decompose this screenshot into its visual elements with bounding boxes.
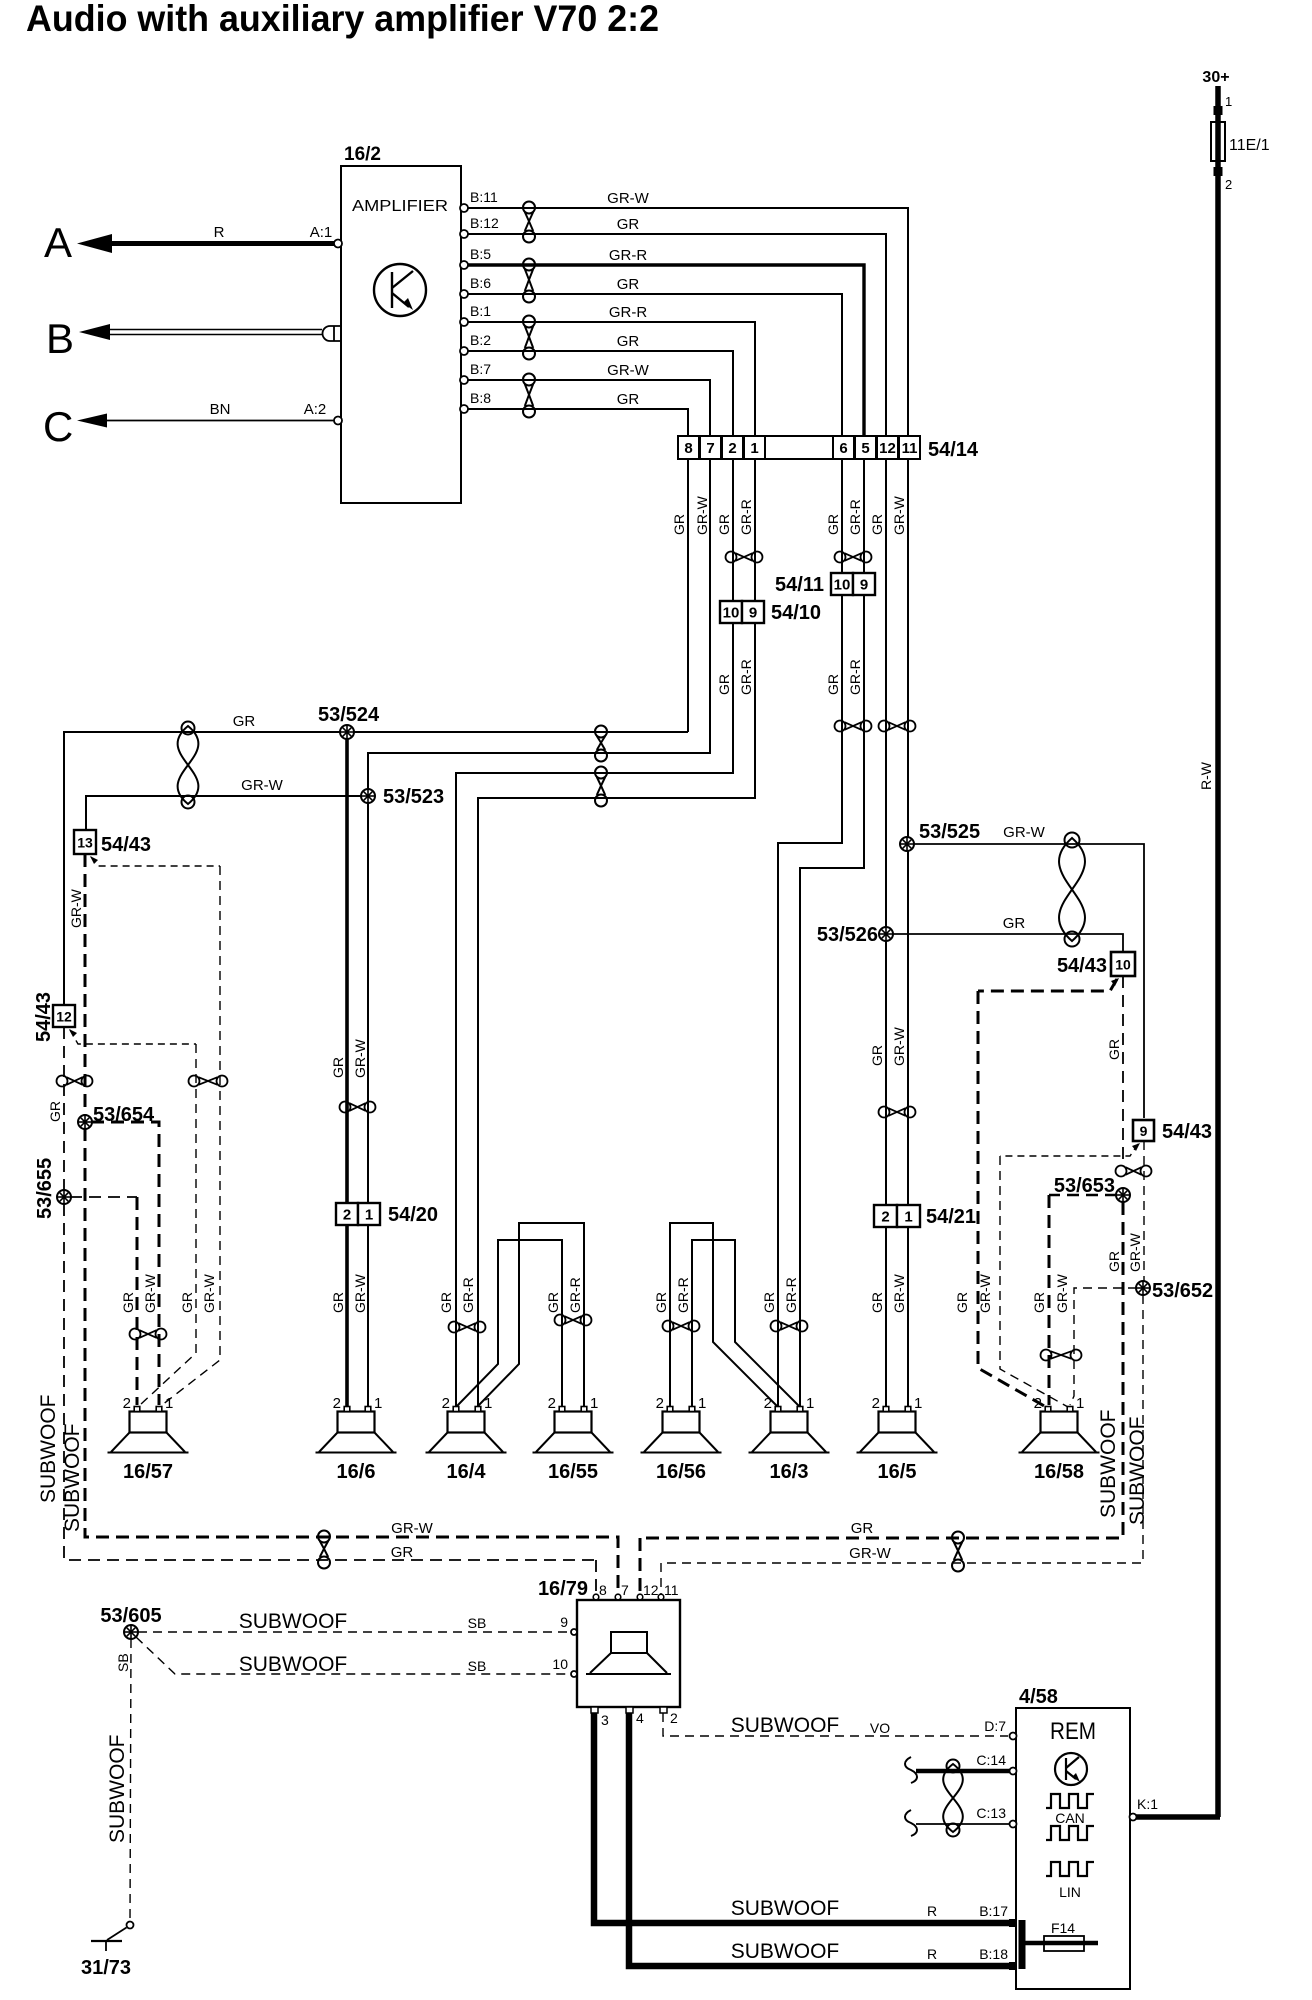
wire GR bus right into 16/79 pin 12 bbox=[639, 1538, 642, 1597]
svg-text:GR-W: GR-W bbox=[68, 888, 84, 928]
CAN symbol bbox=[1046, 1794, 1094, 1840]
wire GR-W from pin B:7 of 16/2 to 54/14 bbox=[461, 380, 710, 436]
twisted pair symbol bbox=[57, 1076, 93, 1087]
svg-text:GR-W: GR-W bbox=[607, 190, 649, 207]
twisted pair symbol large bbox=[943, 1760, 963, 1837]
wire C:14 CAN high bbox=[916, 1769, 1010, 1774]
wire GR-W dashed down to 16/57 pin 1 bbox=[162, 866, 220, 1405]
twisted pair symbol bbox=[879, 1107, 916, 1118]
wire GR from pin B:12 of 16/2 to 54/14 bbox=[461, 234, 886, 436]
svg-text:GR: GR bbox=[671, 514, 687, 535]
svg-text:1: 1 bbox=[750, 440, 758, 457]
svg-text:1: 1 bbox=[806, 1395, 814, 1412]
svg-text:GR-W: GR-W bbox=[891, 495, 907, 535]
twisted pair symbol bbox=[523, 259, 535, 303]
wire GR from pin B:8 of 16/2 to 54/14 bbox=[461, 409, 688, 436]
twisted pair symbol bbox=[879, 721, 916, 732]
svg-text:9: 9 bbox=[749, 605, 757, 622]
svg-text:SUBWOOF: SUBWOOF bbox=[731, 1940, 840, 1963]
svg-text:16/56: 16/56 bbox=[656, 1461, 706, 1483]
svg-text:SUBWOOF: SUBWOOF bbox=[1097, 1410, 1120, 1519]
twisted pair symbol bbox=[523, 374, 535, 418]
connector 54/21 bbox=[874, 1205, 976, 1228]
fuse 11E/1 bbox=[1211, 122, 1270, 161]
relay/ECU 4/58 box bbox=[1016, 1708, 1130, 1989]
wire GR-R link 16/56 to 16/3 pin1 bbox=[692, 1240, 799, 1406]
svg-text:GR-R: GR-R bbox=[783, 1277, 799, 1313]
svg-text:B:17: B:17 bbox=[979, 1903, 1008, 1919]
break symbol bbox=[905, 1757, 917, 1783]
svg-text:16/79: 16/79 bbox=[538, 1578, 588, 1600]
wire GR dashed 53/655 to bus bbox=[64, 1204, 596, 1560]
svg-text:A:2: A:2 bbox=[304, 401, 327, 418]
transistor symbol inside 4/58 bbox=[1055, 1753, 1087, 1785]
svg-text:1: 1 bbox=[365, 1207, 373, 1224]
wire VO subwoofer signal to REM D:7 bbox=[663, 1713, 1008, 1736]
svg-text:GR: GR bbox=[1031, 1292, 1047, 1313]
connector 54/10 bbox=[720, 601, 821, 624]
pin C:13 circle bbox=[1010, 1821, 1017, 1828]
wire SB subwoofer+ to 16/79 pin 9 bbox=[138, 1631, 571, 1633]
svg-text:2: 2 bbox=[548, 1395, 556, 1412]
LIN symbol bbox=[1046, 1862, 1094, 1900]
svg-text:GR-W: GR-W bbox=[142, 1273, 158, 1313]
amplifier unit 16/2 box bbox=[341, 166, 461, 503]
svg-text:B:6: B:6 bbox=[470, 275, 491, 291]
twisted pair symbol bbox=[595, 767, 607, 807]
svg-text:GR: GR bbox=[716, 514, 732, 535]
wire GR-W heavy dashed 53/654 to bus bbox=[85, 1128, 596, 1537]
ground 31/73 bbox=[81, 1922, 134, 1980]
svg-text:GR-W: GR-W bbox=[241, 777, 283, 794]
svg-text:54/43: 54/43 bbox=[33, 992, 55, 1042]
svg-text:53/524: 53/524 bbox=[318, 704, 380, 726]
svg-text:8: 8 bbox=[599, 1582, 607, 1598]
wire GR link 16/55 to 16/4 pin2 bbox=[457, 1240, 562, 1406]
svg-text:5: 5 bbox=[861, 440, 869, 457]
svg-text:16/58: 16/58 bbox=[1034, 1461, 1084, 1483]
wire GR-W heavy dashed from 54/43 pin13 bbox=[84, 854, 87, 1116]
connector 54/43 pin 9 bbox=[1133, 1120, 1212, 1143]
svg-text:SB: SB bbox=[115, 1653, 131, 1672]
transistor symbol inside 16/2 bbox=[374, 264, 426, 316]
svg-text:SUBWOOF: SUBWOOF bbox=[731, 1714, 840, 1737]
svg-text:2: 2 bbox=[343, 1207, 351, 1224]
pin C:14 circle bbox=[1010, 1768, 1017, 1775]
svg-text:2: 2 bbox=[442, 1395, 450, 1412]
svg-text:GR: GR bbox=[545, 1292, 561, 1313]
svg-text:2: 2 bbox=[123, 1395, 131, 1412]
svg-text:54/21: 54/21 bbox=[926, 1206, 976, 1228]
svg-text:GR: GR bbox=[120, 1292, 136, 1313]
svg-text:53/523: 53/523 bbox=[383, 786, 444, 808]
svg-text:B:18: B:18 bbox=[979, 1946, 1008, 1962]
wire GR-W from pin B:11 of 16/2 to 54/14 bbox=[461, 208, 908, 436]
svg-text:D:7: D:7 bbox=[984, 1718, 1006, 1734]
svg-text:GR: GR bbox=[869, 514, 885, 535]
wire R to A (pin A:1) bbox=[77, 234, 338, 253]
svg-text:GR: GR bbox=[391, 1544, 414, 1561]
pin K:1 of 4/58 bbox=[1130, 1796, 1159, 1821]
wire antenna lead to B bbox=[79, 324, 341, 341]
svg-text:AMPLIFIER: AMPLIFIER bbox=[352, 198, 448, 215]
svg-text:GR-W: GR-W bbox=[891, 1026, 907, 1066]
pin 10 of 16/79 bbox=[552, 1656, 577, 1677]
svg-text:GR: GR bbox=[617, 276, 640, 293]
svg-text:54/20: 54/20 bbox=[388, 1204, 438, 1226]
pin 2 of fuse 11E/1 bbox=[1214, 167, 1233, 192]
svg-text:31/73: 31/73 bbox=[81, 1957, 131, 1979]
wire GR-W dashed from 54/43 pin9 down bbox=[1143, 1141, 1145, 1282]
wire SUBWOOF from 16/79 pin4 to B:18 bbox=[629, 1713, 1012, 1966]
svg-text:GR: GR bbox=[438, 1292, 454, 1313]
pin B:18 square bbox=[1009, 1962, 1017, 1970]
svg-text:R: R bbox=[927, 1903, 937, 1919]
wire GR from pin8 run to 53/524 and 54/43 pin12 bbox=[64, 732, 688, 1005]
svg-text:16/57: 16/57 bbox=[123, 1461, 173, 1483]
wire GR-W from 53/525 to 54/43 pin 9 bbox=[913, 844, 1144, 1118]
svg-text:54/43: 54/43 bbox=[1057, 955, 1107, 977]
svg-text:53/652: 53/652 bbox=[1152, 1280, 1213, 1302]
svg-text:GR-W: GR-W bbox=[977, 1273, 993, 1313]
pin B:12 circle bbox=[460, 230, 468, 238]
svg-text:R-W: R-W bbox=[1198, 761, 1214, 790]
svg-text:GR: GR bbox=[1003, 915, 1026, 932]
wire GR from 53/526 to 54/43 pin 10 bbox=[892, 934, 1123, 951]
pin A:1 circle bbox=[334, 240, 342, 248]
svg-text:VO: VO bbox=[870, 1720, 890, 1736]
connector 54/11 bbox=[775, 573, 875, 596]
svg-text:REM: REM bbox=[1050, 1718, 1096, 1745]
svg-text:GR-W: GR-W bbox=[352, 1038, 368, 1078]
twisted pair symbol bbox=[555, 1315, 592, 1326]
svg-text:GR-W: GR-W bbox=[607, 362, 649, 379]
wire GR from pin B:2 of 16/2 to 54/14 bbox=[461, 351, 733, 436]
connector 54/14 bbox=[678, 436, 979, 461]
pin 7 of 16/79 bbox=[615, 1582, 629, 1600]
svg-text:GR-W: GR-W bbox=[849, 1545, 891, 1562]
svg-text:30+: 30+ bbox=[1202, 69, 1229, 86]
speaker 16/58 bbox=[1019, 1395, 1100, 1483]
wire GR heavy dashed down to 16/58 pin 2 bbox=[978, 991, 1046, 1407]
twisted pair symbol bbox=[523, 202, 535, 243]
svg-text:GR: GR bbox=[617, 216, 640, 233]
wire SUBWOOF from 16/79 pin3 to B:17 bbox=[594, 1713, 1012, 1923]
wire GR thick from 53/524 to 16/6 pin 2 bbox=[345, 738, 349, 1406]
svg-text:11: 11 bbox=[664, 1582, 679, 1598]
svg-text:GR-R: GR-R bbox=[738, 499, 754, 535]
pin 12 of 16/79 bbox=[637, 1582, 659, 1600]
svg-text:BN: BN bbox=[210, 401, 231, 418]
wire GR from 54/14 pin 2 bbox=[456, 459, 733, 1406]
wire GR-R from 54/14 pin 5 bbox=[800, 459, 864, 1406]
wire GR-W dashed from 54/43 pin9 branch bbox=[1000, 1144, 1138, 1156]
svg-text:GR: GR bbox=[1106, 1251, 1122, 1272]
svg-text:53/525: 53/525 bbox=[919, 821, 980, 843]
wire SB subwoofer- to 16/79 pin 10 bbox=[136, 1637, 571, 1674]
speaker 16/5 bbox=[857, 1395, 938, 1483]
wire GR from pin B:6 of 16/2 to 54/14 bbox=[461, 294, 842, 436]
svg-text:B:12: B:12 bbox=[470, 215, 499, 231]
svg-text:SUBWOOF: SUBWOOF bbox=[239, 1610, 348, 1633]
pin 9 of 16/79 bbox=[560, 1614, 577, 1635]
wire GR from 54/14 pin 6 bbox=[778, 459, 842, 1406]
svg-text:GR: GR bbox=[233, 713, 256, 730]
pin 2 of 16/79 bbox=[660, 1707, 678, 1726]
wire R-W battery feed bbox=[1215, 161, 1221, 1817]
svg-text:GR-W: GR-W bbox=[891, 1273, 907, 1313]
svg-text:10: 10 bbox=[834, 577, 851, 594]
svg-text:54/43: 54/43 bbox=[101, 834, 151, 856]
subwoofer unit 16/79 box bbox=[577, 1600, 680, 1707]
wire GR from 54/14 pin 12 bbox=[885, 459, 887, 1406]
svg-text:GR-R: GR-R bbox=[847, 659, 863, 695]
pin B:8 circle bbox=[460, 405, 468, 413]
svg-text:1: 1 bbox=[590, 1395, 598, 1412]
svg-text:GR: GR bbox=[330, 1057, 346, 1078]
svg-text:CAN: CAN bbox=[1055, 1810, 1085, 1826]
twisted pair symbol bbox=[771, 1321, 808, 1332]
wire GR-R link 16/55 to 16/4 pin1 bbox=[478, 1223, 584, 1406]
svg-text:1: 1 bbox=[374, 1395, 382, 1412]
node 53/523 bbox=[361, 789, 375, 803]
svg-text:R: R bbox=[927, 1946, 937, 1962]
svg-text:53/655: 53/655 bbox=[34, 1158, 56, 1219]
twisted pair symbol bbox=[1116, 1166, 1152, 1177]
svg-text:SUBWOOF: SUBWOOF bbox=[37, 1395, 60, 1504]
svg-text:GR-W: GR-W bbox=[201, 1273, 217, 1313]
wire C:13 CAN low bbox=[916, 1823, 1010, 1825]
pin 1 of fuse 11E/1 bbox=[1214, 94, 1233, 115]
svg-text:SUBWOOF: SUBWOOF bbox=[1126, 1417, 1149, 1526]
twisted pair symbol bbox=[130, 1329, 167, 1340]
svg-text:GR: GR bbox=[653, 1292, 669, 1313]
svg-text:10: 10 bbox=[1115, 957, 1131, 973]
node 53/525 bbox=[900, 837, 914, 851]
svg-text:GR-W: GR-W bbox=[1127, 1232, 1143, 1272]
wire GR bus left into 16/79 pin 8 bbox=[595, 1560, 597, 1597]
node 53/654 bbox=[78, 1115, 92, 1129]
pin 8 of 16/79 bbox=[593, 1582, 607, 1600]
wire GR-W bus right into 16/79 pin 11 bbox=[660, 1563, 662, 1597]
connector 54/43 pin 12 bbox=[33, 992, 75, 1042]
svg-text:GR: GR bbox=[851, 1520, 874, 1537]
svg-text:2: 2 bbox=[656, 1395, 664, 1412]
svg-text:10: 10 bbox=[723, 605, 740, 622]
pin A:2 circle bbox=[334, 417, 342, 425]
svg-text:4: 4 bbox=[636, 1710, 644, 1726]
svg-text:SUBWOOF: SUBWOOF bbox=[239, 1653, 348, 1676]
svg-text:Audio with auxiliary amplifier: Audio with auxiliary amplifier V70 2:2 bbox=[26, 0, 659, 39]
connector 54/43 pin 10 bbox=[1057, 952, 1135, 977]
wire SB shield to ground bbox=[130, 1639, 131, 1921]
wire GR-W dashed 53/652 branch bbox=[1070, 1288, 1137, 1405]
svg-text:B:8: B:8 bbox=[470, 390, 491, 406]
svg-text:SB: SB bbox=[468, 1658, 487, 1674]
svg-text:16/4: 16/4 bbox=[447, 1461, 487, 1483]
pin D:7 of 4/58 bbox=[984, 1718, 1016, 1740]
svg-text:2: 2 bbox=[881, 1209, 889, 1226]
svg-text:4/58: 4/58 bbox=[1019, 1686, 1058, 1708]
svg-text:7: 7 bbox=[706, 440, 714, 457]
twisted pair symbol bbox=[340, 1102, 376, 1113]
svg-text:1: 1 bbox=[914, 1395, 922, 1412]
twisted pair symbol bbox=[663, 1321, 700, 1332]
twisted pair symbol bbox=[523, 316, 535, 360]
svg-text:1: 1 bbox=[698, 1395, 706, 1412]
svg-text:GR: GR bbox=[617, 391, 640, 408]
twisted pair symbol large bbox=[178, 722, 199, 809]
wire GR dashed 53/653 branch bbox=[1049, 1194, 1117, 1196]
svg-text:16/3: 16/3 bbox=[770, 1461, 809, 1483]
wire GR dashed from 54/43 pin10 down bbox=[1122, 976, 1124, 1165]
node 53/653 bbox=[1116, 1188, 1130, 1202]
svg-text:2: 2 bbox=[728, 440, 736, 457]
svg-text:GR-R: GR-R bbox=[609, 247, 647, 264]
node 53/605 bbox=[124, 1625, 138, 1639]
pin B:1 circle bbox=[460, 318, 468, 326]
wire GR-R from pin B:5 of 16/2 to 54/14 bbox=[461, 265, 864, 436]
wire GR dashed 53/655 branch bbox=[70, 1196, 137, 1198]
svg-text:GR: GR bbox=[954, 1292, 970, 1313]
svg-text:GR: GR bbox=[761, 1292, 777, 1313]
svg-text:B:7: B:7 bbox=[470, 361, 491, 377]
svg-text:2: 2 bbox=[1034, 1395, 1042, 1412]
svg-text:16/6: 16/6 bbox=[337, 1461, 376, 1483]
svg-text:GR-R: GR-R bbox=[609, 304, 647, 321]
svg-text:2: 2 bbox=[872, 1395, 880, 1412]
svg-text:B:1: B:1 bbox=[470, 303, 491, 319]
svg-text:LIN: LIN bbox=[1059, 1884, 1081, 1900]
svg-text:B:5: B:5 bbox=[470, 246, 491, 262]
wire GR-W from 54/14 pin 11 bbox=[907, 459, 909, 1406]
twisted pair symbol bbox=[726, 552, 763, 563]
wire GR-W dashed 53/652 to bus bbox=[661, 1295, 1143, 1563]
connector 54/43 pin 13 bbox=[74, 830, 151, 856]
svg-text:SUBWOOF: SUBWOOF bbox=[731, 1897, 840, 1920]
speaker 16/57 bbox=[108, 1395, 189, 1483]
svg-text:54/43: 54/43 bbox=[1162, 1121, 1212, 1143]
svg-text:GR: GR bbox=[47, 1101, 63, 1122]
pin B:7 circle bbox=[460, 376, 468, 384]
svg-text:12: 12 bbox=[643, 1582, 659, 1598]
svg-text:9: 9 bbox=[560, 1614, 568, 1630]
svg-text:54/14: 54/14 bbox=[928, 439, 979, 461]
svg-text:16/5: 16/5 bbox=[878, 1461, 917, 1483]
svg-text:R: R bbox=[214, 224, 225, 241]
svg-text:C:13: C:13 bbox=[976, 1805, 1006, 1821]
wire GR-W from 53/523 to 16/6 pin 1 bbox=[367, 802, 369, 1406]
svg-text:1: 1 bbox=[1225, 94, 1232, 109]
pin 3 of 16/79 bbox=[591, 1707, 609, 1728]
svg-text:GR-W: GR-W bbox=[352, 1273, 368, 1313]
svg-text:GR-R: GR-R bbox=[460, 1277, 476, 1313]
wire GR-R from pin B:1 of 16/2 to 54/14 bbox=[461, 322, 755, 436]
pin B:6 circle bbox=[460, 290, 468, 298]
svg-text:12: 12 bbox=[56, 1009, 72, 1025]
svg-text:F14: F14 bbox=[1051, 1920, 1075, 1936]
pin 11 of 16/79 bbox=[658, 1582, 679, 1600]
speaker 16/4 bbox=[426, 1395, 507, 1483]
svg-text:GR-W: GR-W bbox=[1054, 1273, 1070, 1313]
connector 54/20 bbox=[336, 1203, 438, 1226]
wire GR link 16/56 to 16/3 pin2 bbox=[670, 1223, 777, 1406]
wire GR-W dashed from 54/43 pin13 branch bbox=[91, 857, 220, 866]
wire BN to C (pin A:2) bbox=[77, 414, 338, 428]
svg-text:1: 1 bbox=[904, 1209, 912, 1226]
twisted pair symbol bbox=[1041, 1350, 1082, 1361]
wire GR-W from 54/14 pin 7 bbox=[368, 459, 710, 790]
svg-text:GR: GR bbox=[179, 1292, 195, 1313]
svg-text:2: 2 bbox=[764, 1395, 772, 1412]
wire GR dashed from 54/43 pin12 branch bbox=[70, 1030, 196, 1044]
twisted pair symbol bbox=[595, 726, 607, 762]
svg-text:1: 1 bbox=[1076, 1395, 1084, 1412]
svg-text:2: 2 bbox=[1225, 177, 1232, 192]
svg-text:8: 8 bbox=[684, 440, 692, 457]
svg-text:53/526: 53/526 bbox=[817, 924, 878, 946]
svg-text:12: 12 bbox=[879, 440, 896, 457]
svg-text:C: C bbox=[43, 403, 73, 450]
twisted pair symbol bbox=[449, 1322, 486, 1333]
wire GR dashed down to 16/57 pin 2 bbox=[140, 1044, 196, 1405]
speaker 16/3 bbox=[749, 1395, 830, 1483]
wire 30+ feed bbox=[1215, 86, 1221, 122]
svg-text:GR-R: GR-R bbox=[847, 499, 863, 535]
svg-text:GR: GR bbox=[869, 1292, 885, 1313]
node 53/652 bbox=[1136, 1281, 1150, 1295]
wire GR-W heavy dashed 53/654 to 16/57 pin 1 bbox=[91, 1122, 159, 1405]
wire GR-W dashed down to 16/58 pin 1 bbox=[1000, 1156, 1068, 1407]
pin B:11 circle bbox=[460, 204, 468, 212]
svg-text:B:2: B:2 bbox=[470, 332, 491, 348]
speaker 16/6 bbox=[316, 1395, 397, 1483]
wire GR-R from 54/14 pin 1 bbox=[478, 459, 755, 1406]
wire GR-W bus left into 16/79 pin 7 bbox=[596, 1537, 618, 1597]
svg-text:9: 9 bbox=[860, 577, 868, 594]
speaker 16/55 bbox=[533, 1395, 614, 1483]
wire GR dashed from 54/43 pin12 down bbox=[63, 1027, 65, 1190]
speaker 16/56 bbox=[641, 1395, 722, 1483]
svg-text:3: 3 bbox=[601, 1712, 609, 1728]
svg-text:GR: GR bbox=[825, 674, 841, 695]
svg-text:GR: GR bbox=[617, 333, 640, 350]
wire GR-W from 53/523 to 54/43 pin13 bbox=[86, 796, 368, 830]
svg-text:GR: GR bbox=[825, 514, 841, 535]
twisted pair symbol bbox=[952, 1532, 964, 1572]
svg-text:A: A bbox=[44, 219, 72, 266]
fuse F14 inside 4/58 bbox=[1022, 1920, 1098, 1969]
svg-text:11: 11 bbox=[902, 440, 918, 457]
wire GR heavy dashed 53/653 to bus bbox=[640, 1202, 1123, 1538]
wire GR heavy dashed down to 16/57 pin 2 bbox=[136, 1197, 139, 1405]
svg-text:GR-R: GR-R bbox=[675, 1277, 691, 1313]
pin B:5 circle bbox=[460, 261, 468, 269]
node 53/526 bbox=[879, 927, 893, 941]
svg-text:11E/1: 11E/1 bbox=[1229, 137, 1270, 154]
svg-text:2: 2 bbox=[333, 1395, 341, 1412]
pin B:17 square bbox=[1009, 1919, 1017, 1927]
svg-text:54/11: 54/11 bbox=[775, 574, 824, 596]
svg-text:SUBWOOF: SUBWOOF bbox=[61, 1424, 84, 1533]
svg-text:1: 1 bbox=[484, 1395, 492, 1412]
wire GR heavy dashed down to 16/58 pin 2 inner bbox=[1048, 1195, 1051, 1405]
svg-text:GR-W: GR-W bbox=[391, 1520, 433, 1537]
pin B:2 circle bbox=[460, 347, 468, 355]
twisted pair symbol bbox=[835, 552, 872, 563]
wire R-W to K:1 bbox=[1136, 1814, 1220, 1820]
svg-text:2: 2 bbox=[670, 1710, 678, 1726]
